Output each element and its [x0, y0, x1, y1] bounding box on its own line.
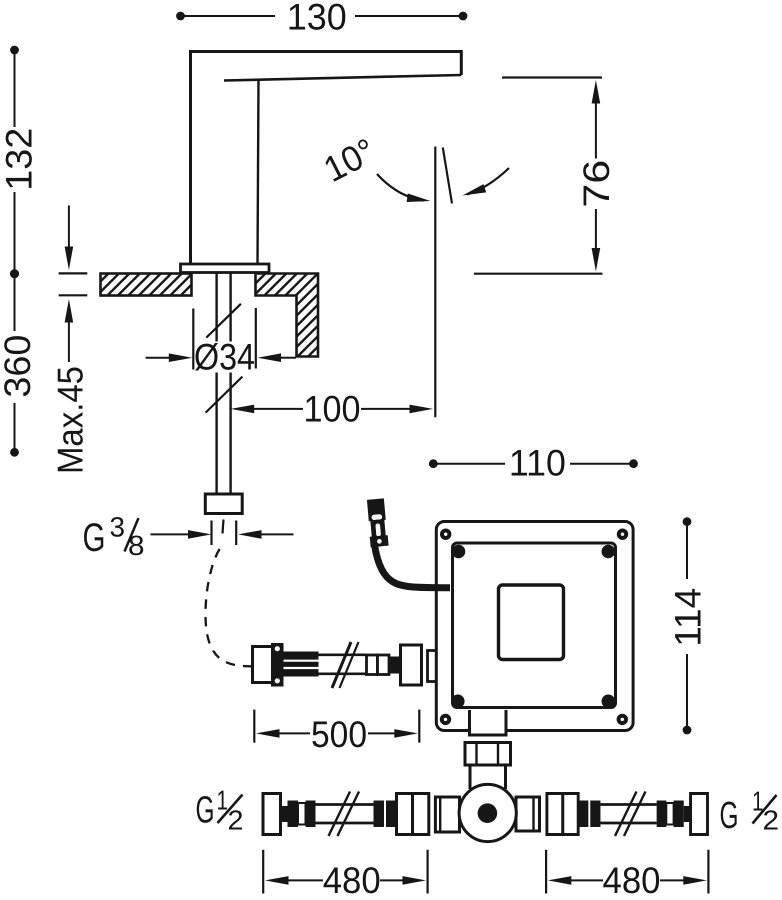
angle arc left with arrow	[377, 174, 424, 201]
angle arc right with arrow	[467, 168, 509, 195]
hose nut left	[253, 647, 274, 683]
corner screw bottom-right	[619, 716, 626, 723]
countertop deck left slab (hatched)	[101, 274, 192, 296]
dimension 480 left	[263, 850, 427, 900]
right supply hose 480mm (mirror)	[547, 794, 708, 835]
svg-text:Ø34: Ø34	[194, 336, 255, 377]
left hose break slashes	[329, 792, 351, 837]
cable plug connector	[367, 498, 389, 547]
spout underside	[224, 75, 461, 81]
svg-text:G: G	[196, 790, 215, 832]
dimension Max.45	[49, 206, 90, 475]
valve right port	[516, 797, 540, 831]
left supply hose 480mm	[263, 794, 429, 835]
faucet body front edge	[258, 80, 259, 264]
svg-text:76: 76	[576, 160, 617, 208]
right hose break slashes	[615, 792, 637, 837]
inner panel corner dot bottom-right	[602, 695, 616, 709]
inner panel corner dot top-right	[602, 545, 616, 559]
svg-text:8: 8	[128, 530, 145, 561]
dimension 360	[0, 335, 38, 457]
end nut	[263, 794, 281, 835]
shank break slash lower	[206, 377, 243, 413]
dashed flexible hose curve	[205, 549, 252, 666]
break slash	[332, 642, 351, 688]
faucet base flange	[181, 264, 270, 273]
svg-text:2: 2	[228, 805, 244, 836]
control box outer case	[436, 522, 633, 731]
svg-text:500: 500	[311, 714, 367, 755]
sensor cable	[375, 545, 451, 588]
shank break slash upper	[206, 304, 241, 338]
valve inlet pipe	[469, 765, 472, 789]
control box left inlet tab	[428, 651, 442, 682]
dimension 500	[254, 710, 419, 755]
dimension 114	[667, 517, 708, 734]
svg-text:480: 480	[323, 860, 381, 900]
hose tube	[319, 653, 367, 656]
sensor beam tilted line	[443, 148, 452, 204]
dimension 76	[474, 78, 617, 274]
dashed pipe stub below connector	[210, 521, 212, 546]
dimension diameter 34	[146, 308, 296, 377]
countertop deck right slab with vertical return (hatched)	[256, 274, 319, 357]
fittings	[367, 655, 378, 675]
svg-text:1: 1	[217, 785, 229, 816]
double nut	[397, 794, 413, 835]
svg-text:130: 130	[287, 0, 347, 37]
hose collar	[271, 643, 284, 687]
corner screw top-right	[619, 531, 626, 538]
control box inner panel	[453, 543, 616, 708]
dimension 100	[231, 389, 433, 430]
svg-text:110: 110	[509, 442, 566, 483]
box bottom outlet tab	[470, 710, 507, 735]
svg-text:2: 2	[763, 805, 780, 836]
braided section	[284, 652, 319, 677]
stub	[281, 806, 288, 822]
flexible hose 500mm from faucet to box	[253, 642, 422, 688]
label G 3/8	[83, 512, 294, 562]
corner screw top-left	[442, 531, 449, 538]
braid blocks	[374, 801, 385, 828]
sensor beam axis line	[434, 147, 436, 418]
valve left port	[435, 797, 459, 832]
svg-text:G: G	[83, 516, 106, 560]
dimension 110	[429, 442, 638, 483]
faucet shank pipe	[215, 272, 217, 495]
inner panel corner dot top-left	[452, 545, 466, 559]
svg-text:132: 132	[0, 128, 39, 191]
label G 1/2 left	[196, 785, 244, 836]
label G 1/2 right	[720, 786, 780, 838]
svg-text:480: 480	[603, 860, 661, 900]
valve body	[459, 784, 516, 841]
svg-text:Max.45: Max.45	[49, 366, 90, 474]
svg-text:G: G	[720, 795, 739, 837]
braid blocks	[288, 801, 299, 828]
dimension 480 right	[546, 850, 708, 900]
svg-text:3: 3	[110, 512, 126, 543]
dimension 130	[176, 0, 467, 37]
G3/8 hose connector under shank	[205, 494, 242, 514]
corner screw bottom-left	[442, 716, 449, 723]
dimension 132	[0, 46, 39, 331]
svg-text:360: 360	[0, 335, 38, 398]
svg-text:114: 114	[667, 588, 708, 647]
tube	[316, 803, 374, 806]
inner panel corner dot bottom-left	[451, 695, 465, 709]
hose nut right	[401, 645, 422, 685]
slip nut	[465, 743, 511, 766]
valve center dot	[478, 803, 498, 823]
faucet body and spout outline	[191, 52, 462, 266]
sensor window	[499, 585, 564, 660]
svg-text:100: 100	[304, 389, 361, 430]
